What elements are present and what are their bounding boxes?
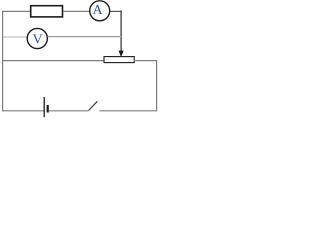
wire battery to switch bbox=[49, 110, 89, 112]
wire ammeter to top-right corner bbox=[110, 10, 122, 12]
battery BT1 short thick plate bbox=[47, 105, 49, 113]
voltmeter U2 circle bbox=[27, 28, 47, 48]
resistor R1 bbox=[31, 6, 63, 17]
wire top-left horizontal bbox=[2, 10, 31, 12]
wire left rail vertical bbox=[2, 11, 4, 111]
svg-text:A: A bbox=[93, 3, 104, 18]
wire rheostat row left bbox=[2, 60, 105, 62]
wire bottom left segment bbox=[2, 110, 44, 112]
wire right drop vertical bbox=[120, 11, 122, 52]
wire switch to right rail bbox=[100, 110, 157, 112]
wire resistor to ammeter bbox=[63, 10, 90, 12]
ammeter U1 circle bbox=[90, 1, 110, 21]
wire voltmeter left bbox=[3, 36, 28, 38]
wire voltmeter right bbox=[48, 36, 122, 38]
switch S1 blade bbox=[89, 101, 98, 110]
svg-text:V: V bbox=[33, 32, 43, 47]
battery BT1 long plate bbox=[43, 97, 45, 117]
rheostat slider arrowhead bbox=[119, 51, 124, 58]
wire rheostat to right rail bbox=[134, 60, 157, 62]
rheostat RP body bbox=[104, 57, 134, 63]
wire right rail vertical bbox=[156, 60, 158, 111]
